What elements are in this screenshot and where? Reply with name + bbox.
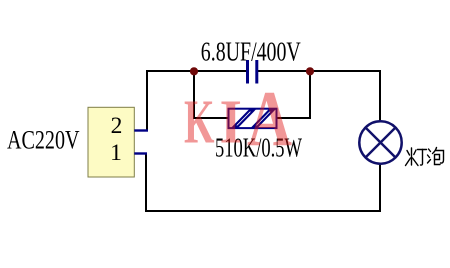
resistor R1 hatch stripe 1 <box>234 111 254 127</box>
wire: top rail right of capacitor <box>257 71 380 121</box>
capacitor C1 right plate <box>255 60 258 84</box>
svg-text:I: I <box>220 89 243 157</box>
pin 2 stub <box>134 129 148 131</box>
wire: RC loop right branch <box>277 71 310 118</box>
灯 ding part <box>418 149 427 151</box>
junction dot left <box>190 67 198 75</box>
泡 bao part <box>433 148 437 154</box>
wire: bottom rail <box>146 154 380 212</box>
svg-text:6.8UF/400V: 6.8UF/400V <box>201 36 301 66</box>
泡 water radical <box>429 149 431 152</box>
terminal block (AC input connector) <box>88 107 134 177</box>
wire: RC loop left branch <box>194 71 228 118</box>
capacitor C1 left plate <box>246 60 249 84</box>
lamp (circle with X) <box>359 121 401 163</box>
svg-text:A: A <box>247 77 292 164</box>
svg-text:K: K <box>184 89 215 157</box>
wire: top rail left of capacitor <box>147 71 247 131</box>
watermark KIA <box>184 77 292 164</box>
pin 1 stub <box>134 152 147 154</box>
resistor R1 hatch stripe 2 <box>254 111 274 127</box>
resistor R1 body <box>229 109 277 128</box>
svg-text:1: 1 <box>110 140 122 166</box>
svg-text:2: 2 <box>111 113 123 139</box>
junction dot right <box>306 67 314 75</box>
灯 fire radical <box>411 148 413 165</box>
lamp label 灯泡 (hand-drawn glyph strokes) <box>406 148 444 166</box>
svg-text:AC220V: AC220V <box>7 126 80 155</box>
